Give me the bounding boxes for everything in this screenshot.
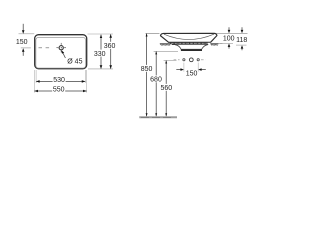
svg-text:680: 680 [150,77,162,84]
dimension 560 (fixing holes height) [164,59,177,61]
drain hole D45 [59,46,63,50]
dimension 850 (rim height) [146,34,148,117]
dimension 150 (fixing holes) [183,63,185,72]
basin base textured band [171,43,207,45]
dimension 680 (basin bottom height) [154,50,178,52]
countertop left [160,43,171,45]
dimension 150 (left) [19,33,35,35]
svg-text:150: 150 [186,71,198,78]
svg-text:360: 360 [104,43,116,50]
centerline dashed through tap hole [21,47,31,49]
svg-text:150: 150 [16,39,28,46]
fixing holes centerline dashes [174,59,180,61]
fixing hole left [183,59,185,61]
bowl inner basin arc [164,34,214,39]
fixing hole right [197,59,199,61]
svg-text:118: 118 [236,37,247,44]
dimension 550 (bottom) [33,70,35,93]
top reference line (rim level) [146,32,160,34]
dimension 360 (right outer) [88,33,114,35]
floor line [139,116,177,118]
dimension 530 (bottom) [35,70,37,83]
svg-text:100: 100 [223,35,235,42]
drain hole center [189,58,193,62]
thick base bottom line [181,49,202,51]
dimension 100 (rim above counter) [228,27,230,30]
basin outer outline (top view, 550x360) [35,35,87,69]
svg-text:Ø 45: Ø 45 [67,59,82,66]
svg-text:550: 550 [53,86,65,93]
svg-text:850: 850 [141,66,153,73]
svg-text:530: 530 [53,77,65,84]
dimension 330 (right inner) [100,35,102,69]
drain / base trapezoid below counter [175,45,208,50]
dimension 118 (total basin height) [241,27,243,30]
basin inner rim outline (530x330) [36,37,86,68]
leader to D45 label [62,52,65,58]
svg-text:330: 330 [94,51,106,58]
countertop right [210,43,218,45]
svg-text:560: 560 [160,85,172,92]
basin bowl (side view) [161,33,217,42]
